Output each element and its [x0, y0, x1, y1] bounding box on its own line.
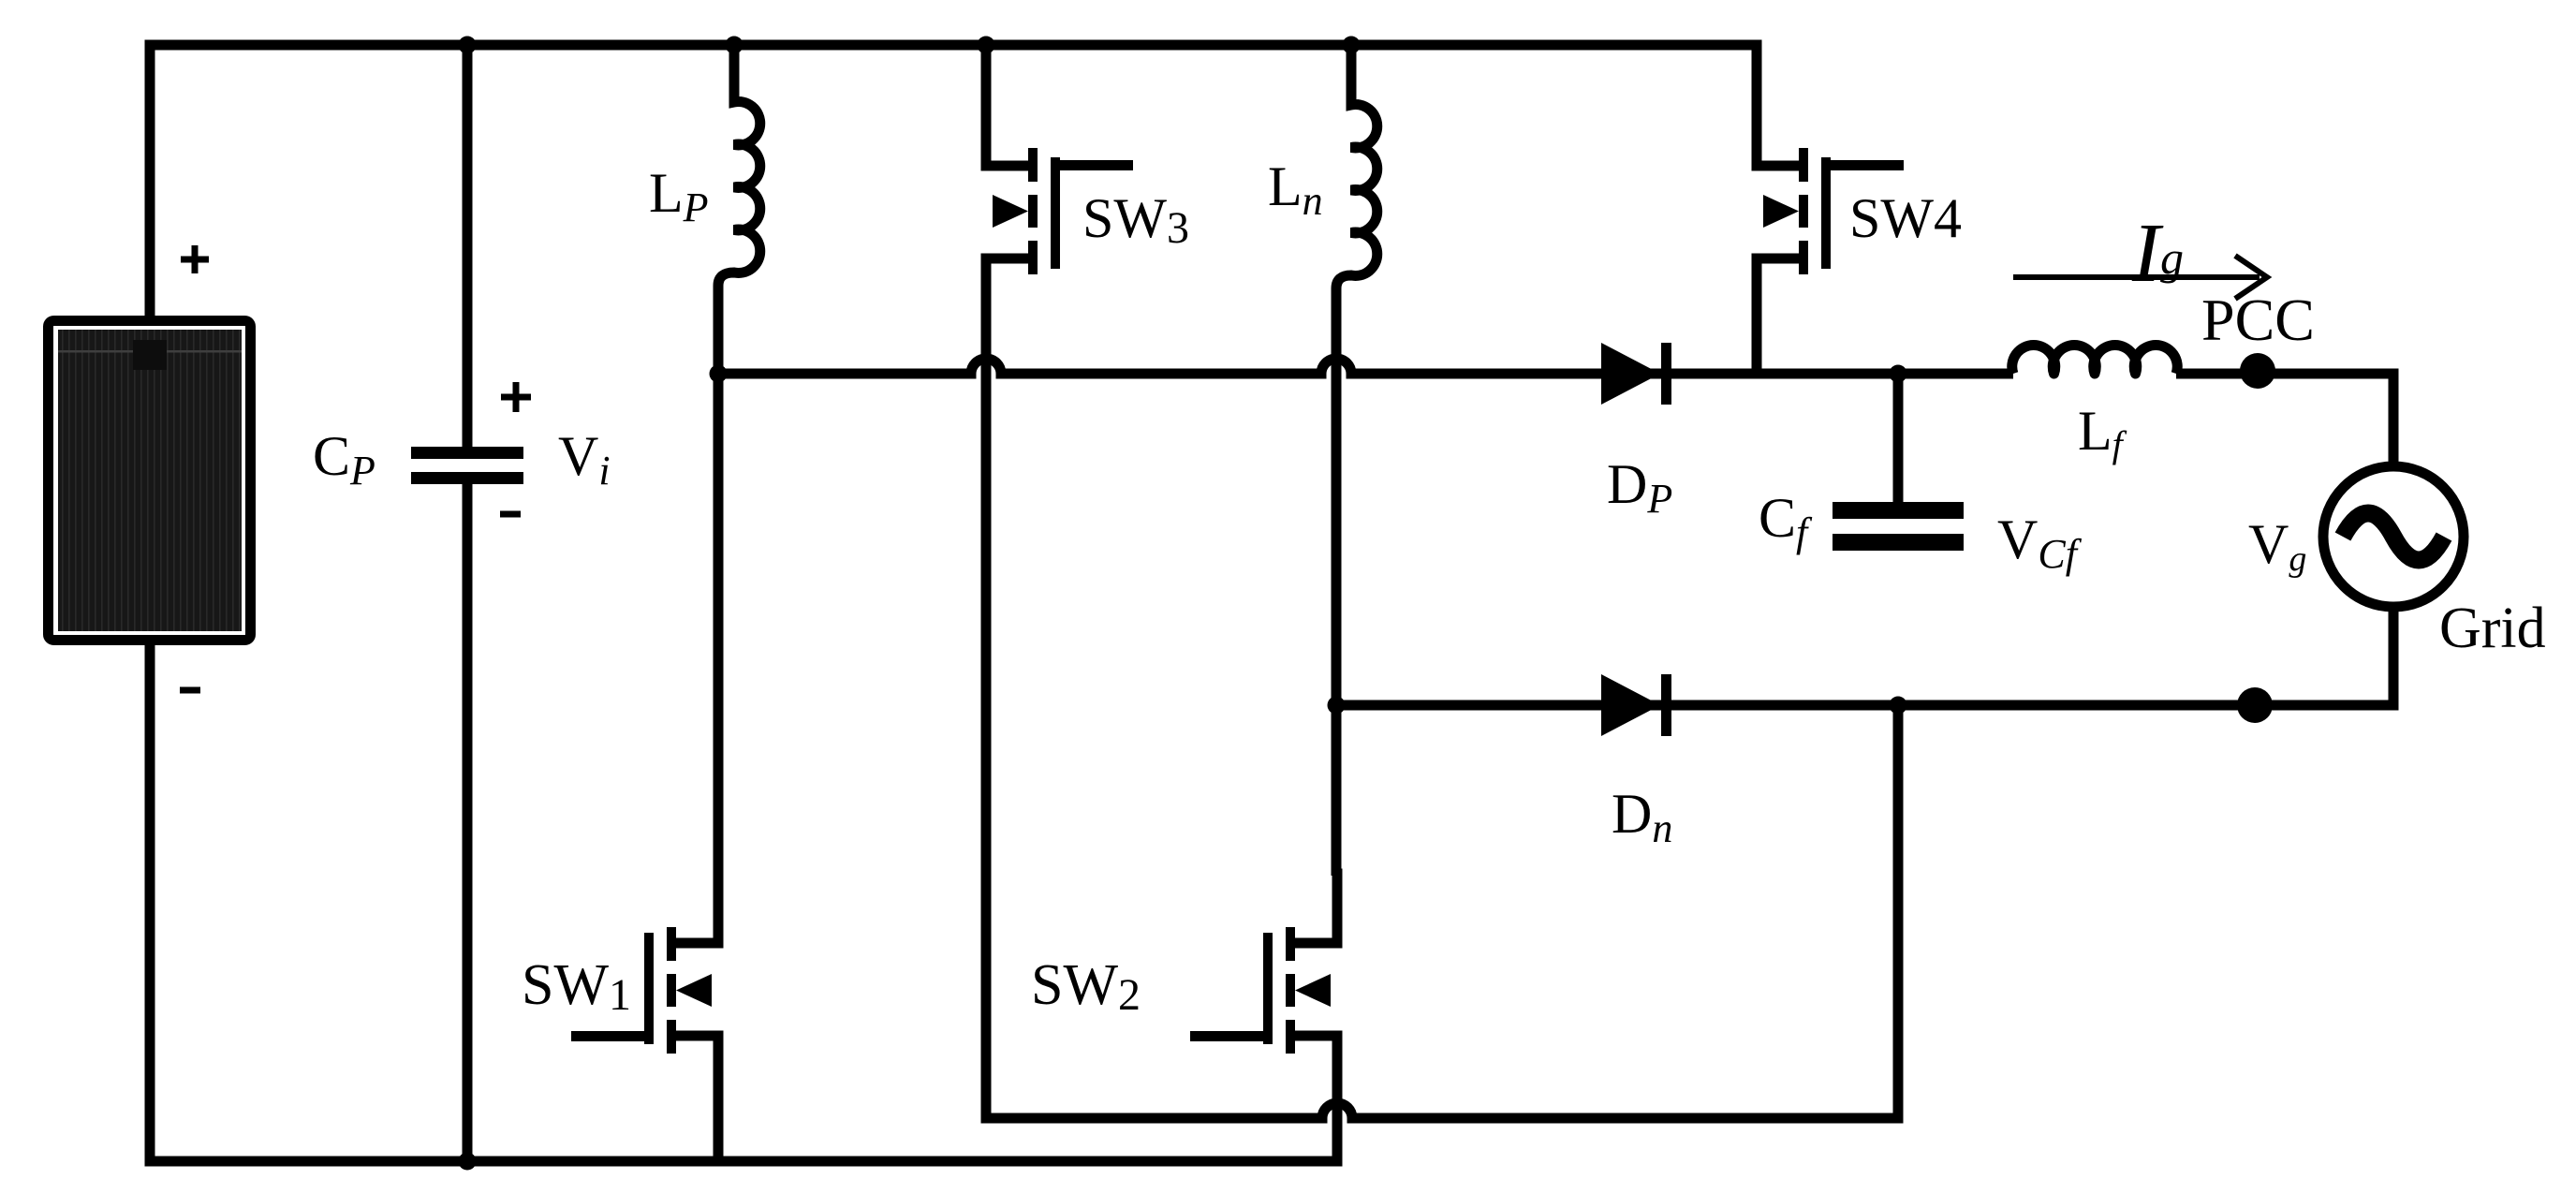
- svg-text:CP: CP: [313, 425, 375, 494]
- svg-text:DP: DP: [1607, 453, 1672, 522]
- wire: Dn bus from Ln line to grid bottom corner: [1336, 605, 2393, 705]
- svg-text:SW3: SW3: [1082, 187, 1189, 253]
- svg-text:Ig: Ig: [2131, 207, 2184, 300]
- svg-text:Lf: Lf: [2078, 400, 2127, 465]
- svg-text:Vg: Vg: [2248, 513, 2306, 579]
- junction dot LP top: [726, 37, 743, 54]
- label - (Vi): [500, 511, 521, 518]
- junction dot Cf bottom / Dn bus: [1890, 697, 1907, 715]
- junction dot Ln top: [1343, 37, 1361, 54]
- capacitor CP: [411, 447, 523, 484]
- wire: CP bottom lead: [463, 484, 473, 1161]
- junction dot mid-bus left (LP/SW1 node): [710, 365, 728, 383]
- wire: SW4 source down to mid bus: [1752, 328, 1762, 374]
- node PCC dot: [2240, 353, 2275, 389]
- svg-text:PCC: PCC: [2201, 287, 2315, 353]
- svg-text:SW1: SW1: [522, 953, 631, 1020]
- transistor SW1: [571, 869, 718, 1113]
- wire: Cf top lead: [1893, 374, 1904, 502]
- wire: PV- lead and bottom bus to SW2 source: [150, 641, 1337, 1161]
- wire: SW3 drain from top bus: [981, 45, 992, 94]
- junction dot Dn anode node on Ln line: [1328, 697, 1346, 715]
- label - (PV negative terminal): [180, 687, 200, 694]
- svg-text:Grid: Grid: [2439, 597, 2546, 660]
- diode DP: [1601, 343, 1671, 405]
- AC source Vg sine symbol: [2343, 513, 2444, 560]
- diode Dn: [1601, 674, 1671, 736]
- junction dot SW3 top: [978, 37, 995, 54]
- wire: top bus from PV+ to SW4 drain: [150, 45, 1757, 318]
- label + (Vi): [501, 382, 531, 412]
- capacitor Cf: [1833, 502, 1964, 551]
- svg-text:VCf: VCf: [1997, 509, 2083, 577]
- svg-text:Vi: Vi: [558, 425, 611, 494]
- svg-text:LP: LP: [649, 162, 709, 230]
- wire: CP top lead: [463, 45, 473, 447]
- transistor SW3: [986, 90, 1133, 333]
- AC source Vg circle: [2323, 466, 2464, 607]
- junction dot CP top: [459, 37, 477, 54]
- wire: mid bus from LP node to grid corner with hops over SW3 and Ln lines: [718, 359, 2393, 473]
- svg-text:Dn: Dn: [1612, 783, 1672, 851]
- transistor SW4: [1757, 90, 1904, 333]
- wire: SW1 source to bottom bus: [714, 1105, 724, 1161]
- wire: SW3 source line down and link bus to Cf bottom, hop over SW2 line: [986, 328, 1898, 1118]
- current arrow Ig: [2013, 256, 2267, 299]
- junction dot Cf top: [1890, 365, 1907, 383]
- PV panel (solar module): [49, 321, 251, 641]
- svg-text:Ln: Ln: [1268, 155, 1323, 224]
- svg-text:Cf: Cf: [1759, 487, 1813, 555]
- junction dot CP bottom: [459, 1153, 477, 1171]
- label + (PV positive terminal): [181, 245, 209, 273]
- inductor Ln: [1336, 45, 1377, 876]
- svg-text:SW2: SW2: [1031, 953, 1141, 1020]
- inductor Lf: [2012, 346, 2178, 374]
- svg-text:SW4: SW4: [1849, 187, 1962, 249]
- node grid return dot: [2237, 687, 2273, 723]
- inductor LP: [718, 45, 760, 876]
- transistor SW2: [1190, 869, 1337, 1113]
